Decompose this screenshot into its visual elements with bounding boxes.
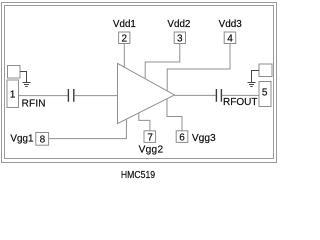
capacitor C2 xyxy=(216,89,221,102)
svg-text:Vdd2: Vdd2 xyxy=(167,19,190,30)
wire: C1 to amplifier input xyxy=(74,95,117,97)
svg-text:RFOUT: RFOUT xyxy=(223,97,257,108)
wire: pin 3 to amplifier top xyxy=(145,44,180,79)
svg-text:5: 5 xyxy=(262,87,268,98)
wire: top-left pad to ground xyxy=(20,72,27,83)
svg-text:Vgg1: Vgg1 xyxy=(10,133,34,144)
wire: top-right pad to ground xyxy=(252,71,260,83)
pin 7 box xyxy=(144,131,156,143)
svg-text:2: 2 xyxy=(122,34,128,45)
op-amp U1 amplifier triangle xyxy=(118,63,175,123)
wire: C2 to pin 5 xyxy=(222,94,259,96)
package outline inner frame xyxy=(5,6,274,159)
wire: pin 1 to C1 xyxy=(19,95,68,97)
svg-text:Vgg2: Vgg2 xyxy=(139,145,164,156)
ground (top-left) xyxy=(23,83,31,87)
svg-text:Vdd1: Vdd1 xyxy=(113,19,137,30)
wire: amplifier output to C2 xyxy=(175,94,216,96)
pin 4 box xyxy=(224,32,236,44)
pin 5 box xyxy=(259,82,271,107)
ground pad square top-right xyxy=(259,64,272,77)
svg-text:8: 8 xyxy=(40,134,46,145)
svg-text:RFIN: RFIN xyxy=(22,98,46,109)
svg-text:4: 4 xyxy=(227,34,233,45)
ground pad square top-left xyxy=(8,66,21,79)
pin 8 box xyxy=(36,133,49,146)
wire: pin 7 to amplifier bottom xyxy=(139,113,150,131)
svg-text:7: 7 xyxy=(147,132,153,143)
wire: pin 6 to amplifier bottom xyxy=(167,99,182,131)
wire: pin 2 to amplifier top xyxy=(123,44,125,68)
svg-text:Vdd3: Vdd3 xyxy=(219,19,243,30)
pin 1 box xyxy=(7,80,19,108)
wire: pin 8 to amplifier bottom xyxy=(49,119,127,139)
pin 3 box xyxy=(174,32,185,44)
pin 2 box xyxy=(119,32,130,44)
svg-text:3: 3 xyxy=(177,34,183,45)
svg-text:HMC519: HMC519 xyxy=(121,170,156,181)
pin 6 box xyxy=(176,131,188,143)
svg-text:Vgg3: Vgg3 xyxy=(192,133,216,144)
svg-text:1: 1 xyxy=(10,89,16,100)
package outline outer frame xyxy=(2,3,277,163)
capacitor C1 xyxy=(68,89,73,102)
wire: pin 4 to amplifier top xyxy=(167,44,230,91)
svg-text:6: 6 xyxy=(179,132,185,143)
ground (top-right) xyxy=(248,83,256,87)
